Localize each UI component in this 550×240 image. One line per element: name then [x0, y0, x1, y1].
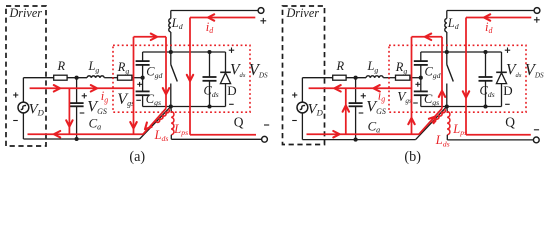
source rail [fig b] [421, 106, 502, 108]
resistor Rg [fig a] [118, 75, 132, 80]
resistor R [fig b] [333, 75, 346, 80]
wire id top (red) [fig a] [190, 17, 255, 19]
node gate [fig a] [141, 76, 145, 80]
terminal + top [fig a] [258, 8, 264, 14]
wire ig channel (red) [fig a] [165, 37, 167, 109]
resistor Rg [fig b] [396, 75, 410, 80]
voltage source VD [fig b] [301, 78, 303, 102]
wire Lps to bottom terminal [fig a] [170, 135, 172, 140]
diode D [fig b] [501, 52, 503, 72]
wire id vertical (red) [fig b] [465, 18, 467, 135]
svg-text:D: D [503, 83, 512, 98]
minus of Vgs [fig a] [136, 99, 141, 101]
plus of Vgs [fig b] [415, 83, 420, 85]
wire Rg to gate node [fig a] [132, 77, 143, 79]
arrow ig return left [fig a] [54, 131, 60, 137]
svg-text:(a): (a) [129, 149, 145, 165]
wire ig bottom return (red) [fig b] [307, 133, 420, 135]
plus of VD [fig b] [292, 94, 297, 96]
plus top terminal [fig b] [534, 19, 540, 21]
terminal - bottom [fig b] [533, 137, 539, 143]
drain rail [fig b] [421, 51, 502, 53]
arrow ig down Ca [fig a] [66, 120, 72, 126]
arrow ig down channel [fig a] [163, 88, 169, 94]
top wire to terminal [fig a] [171, 10, 258, 12]
node Ca bottom [fig a] [75, 137, 79, 141]
arrow ig up channel [fig b] [439, 91, 445, 97]
top wire to terminal [fig b] [447, 10, 534, 12]
arrow id left top [fig b] [484, 14, 490, 20]
node Ld/drain [fig a] [169, 50, 173, 54]
wire id bottom (red) [fig a] [190, 134, 256, 136]
svg-text:Q: Q [505, 114, 515, 129]
switch Q channel [fig b] [446, 52, 448, 65]
wire ig Ca branch (red) [fig b] [345, 88, 347, 134]
arrow ig diagonal downleft [fig a] [145, 123, 152, 130]
minus of Vgs [fig b] [413, 102, 418, 104]
drain rail [fig a] [143, 51, 226, 53]
node source [fig b] [445, 104, 449, 108]
wire ig source diagonal (red) [fig a] [143, 109, 166, 135]
inductor Lds (red coil) [fig a] [156, 109, 171, 124]
plus top terminal [fig a] [260, 20, 266, 22]
minus of Vds [fig a] [229, 103, 234, 105]
minus bottom terminal [fig b] [534, 129, 539, 131]
minus of VD [fig b] [292, 120, 297, 122]
bottom rail [fig a] [23, 138, 139, 140]
inductor Lps (red coil) [fig b] [446, 107, 449, 112]
capacitor Ca branch [fig a] [76, 78, 78, 103]
terminal - bottom [fig a] [262, 136, 268, 142]
arrow ig left 2 [fig b] [374, 85, 380, 91]
wire VD top to R [fig b] [302, 77, 332, 79]
arrow id left top [fig a] [208, 14, 214, 20]
minus bottom terminal [fig a] [264, 124, 269, 126]
wire R to Lg [fig b] [346, 77, 366, 79]
arrow ig left jog [fig b] [425, 34, 431, 40]
node R/Ca junction [fig a] [75, 76, 79, 80]
wire Lps to bottom terminal [fig b] [446, 135, 448, 140]
wire R to Lg [fig a] [67, 77, 87, 79]
transistor Q dotted outline [fig b] [389, 45, 526, 112]
wire ig Ca branch (red) [fig a] [68, 88, 70, 134]
arrow ig up mid [fig b] [408, 118, 414, 124]
minus of VGS [fig b] [359, 112, 364, 114]
node source [fig a] [169, 104, 173, 108]
arrow ig right 1 [fig a] [54, 85, 60, 91]
transistor Q dotted outline [fig a] [113, 45, 250, 112]
capacitor Cds [fig b] [483, 50, 487, 54]
driver dashed box [fig a] [6, 6, 46, 146]
svg-text:R: R [336, 59, 345, 73]
voltage source VD [fig a] [22, 78, 24, 102]
plus of VGS [fig b] [361, 95, 366, 97]
capacitor Cgd [fig b] [420, 52, 422, 61]
wire Lg to Rg [fig b] [383, 77, 395, 79]
wire Rg to gate node [fig b] [410, 77, 421, 79]
plus of Vds [fig a] [229, 49, 234, 51]
switch Q channel [fig a] [170, 52, 172, 65]
arrow id down [fig b] [463, 91, 469, 97]
node R/Ca junction [fig b] [354, 76, 358, 80]
bottom rail [fig b] [302, 139, 415, 141]
minus of VGS [fig a] [80, 112, 85, 114]
inductor Lds (red coil) [fig b] [432, 109, 447, 124]
arrow ig diagonal upright [fig b] [429, 117, 436, 124]
svg-text:Q: Q [234, 114, 244, 129]
capacitor Cgs [fig a] [142, 78, 144, 92]
capacitor Cds [fig a] [207, 50, 211, 54]
wire ig top jog (red) [fig b] [412, 36, 443, 38]
arrow ig up Ca [fig b] [343, 106, 349, 112]
arrow ig left 1 [fig b] [335, 85, 341, 91]
svg-text:R: R [57, 59, 66, 73]
plus of Vds [fig b] [505, 49, 510, 51]
arrow ig down mid [fig a] [130, 122, 136, 128]
svg-text:Driver: Driver [286, 6, 320, 20]
wire id bottom (red) [fig b] [466, 134, 531, 136]
minus of VD [fig a] [13, 120, 18, 122]
inductor Ld [fig b] [446, 11, 448, 19]
terminal + top [fig b] [534, 8, 540, 14]
inductor Ld [fig a] [170, 11, 172, 19]
capacitor Cgd [fig a] [142, 52, 144, 61]
inductor Lps (red coil) [fig a] [170, 107, 173, 112]
svg-text:D: D [227, 83, 236, 98]
minus of Vds [fig b] [505, 103, 510, 105]
arrow id down [fig a] [187, 75, 193, 81]
source rail [fig a] [143, 106, 226, 108]
svg-text:Driver: Driver [9, 6, 43, 20]
wire id vertical (red) [fig a] [189, 18, 191, 135]
inductor Lg [fig a] [87, 76, 104, 78]
wire id top (red) [fig b] [466, 17, 531, 19]
driver dashed box [fig b] [283, 6, 325, 145]
arrow ig right 2 [fig a] [91, 85, 97, 91]
wire ig mid vertical (red) [fig b] [411, 37, 413, 134]
wire Lds diagonal (driver return) [fig a] [140, 107, 171, 140]
diode D [fig a] [225, 52, 227, 72]
node Ld/drain [fig b] [445, 50, 449, 54]
wire ig top (red) [fig b] [309, 87, 412, 89]
inductor Lg [fig b] [366, 76, 383, 78]
node gate [fig b] [419, 76, 423, 80]
plus of VGS [fig a] [82, 95, 87, 97]
capacitor Ca branch [fig b] [355, 78, 357, 103]
resistor R [fig a] [54, 75, 67, 80]
wire ig bottom return (red) [fig a] [28, 133, 144, 135]
wire ig top (red) [fig a] [30, 87, 134, 89]
capacitor Cgs [fig b] [420, 78, 422, 92]
arrow ig return right [fig b] [333, 131, 339, 137]
plus of Vgs [fig a] [137, 83, 142, 85]
node Ca bottom [fig b] [354, 138, 358, 142]
wire ig mid vertical (red) [fig a] [133, 37, 135, 134]
wire ig channel (red) [fig b] [441, 37, 443, 109]
plus of VD [fig a] [13, 94, 18, 96]
wire ig source diagonal (red) [fig b] [419, 109, 442, 135]
wire Lg to Rg [fig a] [104, 77, 117, 79]
svg-text:(b): (b) [404, 149, 421, 165]
wire VD top to R [fig a] [23, 77, 53, 79]
wire Lds diagonal (driver return) [fig b] [416, 107, 447, 140]
wire ig top jog (red) [fig a] [134, 36, 167, 38]
arrow ig right jog [fig a] [151, 34, 157, 40]
